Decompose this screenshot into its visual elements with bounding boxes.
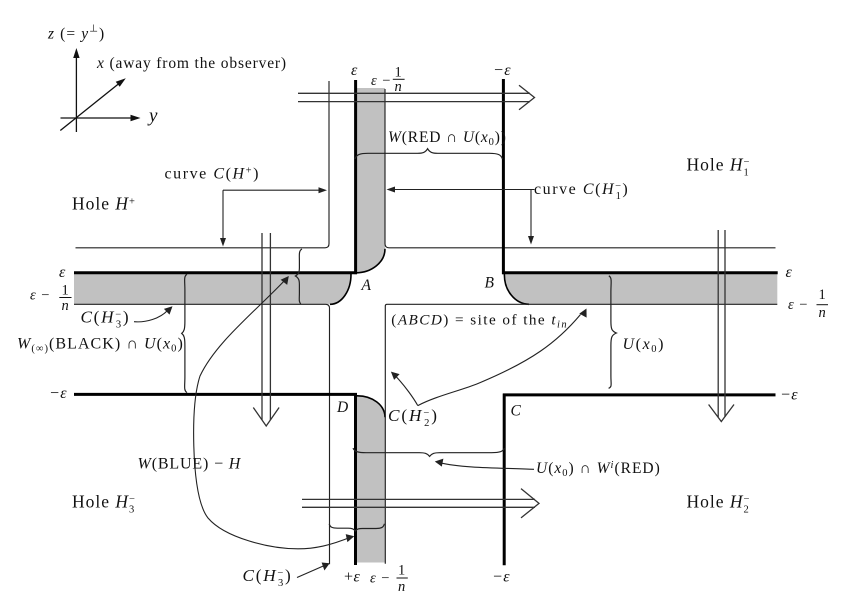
svg-text:curve C(H−1): curve C(H−1): [534, 181, 629, 202]
svg-text:−ε: −ε: [49, 385, 67, 402]
axes: y axis (horizontal): [61, 117, 136, 119]
arc boundary at corner B (right band): [504, 274, 529, 304]
thick line: left-bottom horizontal (-epsilon), y=394.4: [74, 393, 357, 396]
svg-text:C(H−3): C(H−3): [81, 308, 131, 331]
svg-text:n: n: [398, 579, 406, 595]
svg-text:W(∞)(BLACK) ∩ U(x0): W(∞)(BLACK) ∩ U(x0): [17, 336, 184, 355]
svg-text:ε: ε: [59, 264, 66, 281]
small brace (vertical) crossing left band, cusp left at (295.4,276): [295, 249, 302, 304]
svg-text:n: n: [62, 298, 70, 314]
brace (vertical) for U(x0), cusp right at (616.4,333): [609, 276, 617, 389]
connector arrows for label curve C(H1-): [391, 190, 535, 240]
long double-headed arc between the two small braces: [194, 278, 352, 549]
double open arrow: left, pointing down: [253, 233, 279, 426]
svg-text:+ε: +ε: [344, 569, 360, 586]
svg-text:C(H−2): C(H−2): [388, 406, 439, 429]
svg-text:C(H−3): C(H−3): [243, 566, 293, 589]
svg-text:x (away from the observer): x (away from the observer): [96, 55, 287, 72]
double open arrow: right, pointing down: [709, 230, 734, 422]
svg-text:W(BLUE) − H: W(BLUE) − H: [138, 456, 242, 473]
svg-text:−ε: −ε: [493, 62, 511, 79]
svg-text:U(x0): U(x0): [623, 336, 666, 355]
svg-text:ε −: ε −: [30, 288, 50, 304]
thick line: bottom-left vertical (+epsilon), x=355.5: [354, 393, 357, 565]
svg-text:Hole H−1: Hole H−1: [687, 155, 751, 179]
gray region: left horizontal band: [74, 274, 351, 305]
svg-text:C: C: [511, 403, 522, 420]
arc boundary at corner A (top strip): [356, 249, 385, 273]
svg-text:−ε: −ε: [492, 569, 510, 586]
svg-text:D: D: [336, 399, 349, 416]
gray region: bottom vertical strip: [357, 396, 385, 563]
svg-text:ε: ε: [786, 264, 793, 281]
svg-text:n: n: [819, 305, 827, 321]
brace (vertical) for W_infty(BLACK) cap U(x0), cusp left at (183.8,333.4): [182, 274, 187, 392]
svg-text:1: 1: [398, 563, 406, 579]
svg-text:ε −: ε −: [371, 73, 391, 89]
gray region: right horizontal band: [504, 274, 777, 305]
svg-text:Hole H−2: Hole H−2: [687, 492, 751, 516]
thin curve C(H2-) : horizontal y=304.3 (right band bottom) + vertical x=385.3 down: [385, 304, 777, 564]
svg-text:B: B: [485, 275, 495, 292]
svg-text:1: 1: [819, 287, 827, 303]
svg-text:ε: ε: [351, 62, 358, 79]
axes: x axis (diagonal): [60, 82, 121, 131]
thin curve C(H3-) : horizontal y=304.3 (left band bottom) + vertical x=329.5 down: [74, 304, 330, 564]
forked arrow from C(H2-) label: right branch to y=304.3 line: [418, 315, 581, 406]
arrow from bottom C(H3-) label to thin line x=329.5: [297, 565, 325, 577]
arrow from U(x0) cap W^i(RED) label to brace cusp: [440, 463, 534, 470]
arc boundary at corner D (bottom strip): [357, 396, 385, 417]
double open arrow: bottom, pointing right: [302, 489, 539, 518]
arc boundary at corner A (left band): [330, 274, 351, 304]
double open arrow: top, pointing right: [298, 85, 535, 110]
forked arrow from C(H2-) label: left branch to x=385.3 line: [396, 377, 418, 406]
svg-text:−ε: −ε: [780, 387, 798, 404]
thick line: top-right vertical (-epsilon), x=503.4: [502, 79, 505, 274]
svg-text:Hole H+: Hole H+: [72, 194, 136, 214]
thick line: top-left vertical (epsilon), x=355.6: [354, 80, 357, 274]
small brace (horizontal) under bottom strip crossing, cusp down at (355.3,531): [329, 524, 384, 531]
svg-text:Hole H−3: Hole H−3: [72, 492, 136, 516]
arrow from left C(H3-) label to band bottom edge: [134, 311, 168, 322]
svg-text:n: n: [395, 79, 403, 95]
thick line: right horizontal (epsilon), y=272.8: [502, 271, 778, 274]
svg-text:1: 1: [62, 283, 70, 299]
svg-text:U(x0) ∩ Wi(RED): U(x0) ∩ Wi(RED): [536, 460, 661, 479]
svg-text:ε −: ε −: [370, 571, 390, 587]
thin curve C(H+) : vertical x=329 + horizontal y=247.8 to the left: [76, 81, 330, 248]
svg-text:y: y: [147, 106, 158, 127]
axes: z axis (vertical): [75, 53, 77, 132]
svg-text:(ABCD) = site of the tin: (ABCD) = site of the tin: [391, 312, 568, 331]
svg-text:z (= y⊥): z (= y⊥): [47, 24, 105, 43]
brace (horizontal) for W(RED cap U(x0)), cusp up at (427.6,148.7): [355, 149, 503, 159]
connector arrows for label curve C(H+): [223, 190, 323, 241]
svg-text:curve C(H+): curve C(H+): [165, 166, 260, 183]
svg-text:ε −: ε −: [788, 297, 808, 313]
gray region: top vertical strip: [355, 88, 385, 273]
thick line: right-bottom horizontal (-epsilon), y=394.9: [503, 393, 776, 396]
thin curve C(H1-) : strip right edge x=385 + horizontal y=247.8 to the right: [385, 89, 776, 248]
brace (horizontal) between D and C for U(x0) cap W^i(RED), cusp down at (429.6,456.4): [353, 448, 504, 456]
thick line: bottom-right vertical (-epsilon), x=504.2: [503, 394, 506, 566]
svg-text:A: A: [361, 277, 372, 294]
thick line: left horizontal (epsilon), y=272.7: [74, 271, 357, 274]
svg-text:W(RED ∩ U(x0)): W(RED ∩ U(x0)): [388, 129, 507, 148]
